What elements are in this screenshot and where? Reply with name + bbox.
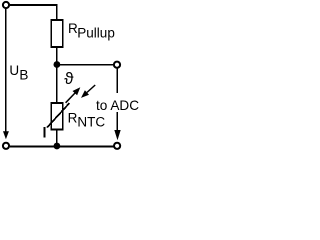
wire top horizontal bbox=[10, 4, 57, 6]
resistor R_Pullup bbox=[51, 20, 63, 47]
node B junction dot bbox=[54, 143, 61, 150]
svg-text:NTC: NTC bbox=[77, 115, 105, 130]
svg-text:B: B bbox=[19, 68, 28, 83]
svg-text:U: U bbox=[9, 63, 19, 78]
wire bottom horizontal bbox=[10, 146, 113, 148]
svg-text:R: R bbox=[68, 110, 78, 125]
arrow NTC to theta bbox=[66, 87, 81, 103]
thermistor foot bbox=[44, 127, 46, 138]
thermistor R_NTC bbox=[51, 103, 63, 130]
svg-text:to ADC: to ADC bbox=[96, 98, 139, 113]
terminal top-left bbox=[3, 2, 9, 8]
terminal bottom-right bbox=[114, 143, 120, 149]
thermistor diagonal bbox=[47, 103, 69, 127]
wire R_Pullup to node A bbox=[56, 47, 58, 65]
label U_B bbox=[9, 63, 28, 82]
wire ADC drop lower segment bbox=[116, 112, 118, 130]
label R_NTC bbox=[68, 110, 106, 129]
wire node A to R_NTC bbox=[56, 65, 58, 104]
wire left rail U_B bbox=[5, 9, 7, 131]
terminal bottom-left bbox=[3, 143, 9, 149]
wire R_NTC to bottom bbox=[56, 130, 58, 147]
wire ADC drop upper segment bbox=[116, 69, 118, 93]
wire node A to ADC terminal bbox=[57, 64, 114, 66]
arrow theta to NTC bbox=[81, 85, 95, 98]
node A junction dot bbox=[54, 61, 61, 68]
svg-text:ϑ: ϑ bbox=[64, 69, 74, 88]
arrowhead U_B bbox=[3, 131, 9, 139]
label R_Pullup bbox=[68, 21, 115, 40]
wire top to R_Pullup bbox=[56, 4, 58, 19]
terminal top-right (ADC tap) bbox=[114, 62, 120, 68]
arrowhead to ADC bbox=[114, 130, 120, 140]
svg-text:Pullup: Pullup bbox=[77, 25, 115, 40]
